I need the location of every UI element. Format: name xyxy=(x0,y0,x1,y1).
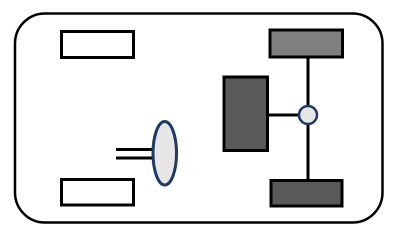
engine block xyxy=(224,77,268,151)
steering column wire lower xyxy=(116,157,152,160)
front-right wheel xyxy=(270,30,343,57)
driveshaft wire engine to differential xyxy=(267,114,300,117)
rear-right wheel xyxy=(271,181,342,207)
rear-left wheel xyxy=(62,180,134,206)
steering wheel xyxy=(153,122,177,186)
steering column wire upper xyxy=(116,148,152,151)
rear axle wire xyxy=(307,56,310,180)
differential node xyxy=(299,106,317,124)
front-left wheel xyxy=(62,32,134,58)
